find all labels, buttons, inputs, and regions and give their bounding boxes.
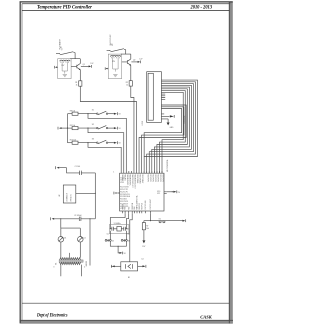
- svg-text:S3: S3: [92, 139, 94, 141]
- svg-text:3: 3: [53, 266, 54, 268]
- svg-text:12V: 12V: [112, 61, 116, 63]
- svg-text:RB7/PGD: RB7/PGD: [141, 202, 143, 210]
- svg-text:RC7/RX/DT: RC7/RX/DT: [120, 203, 128, 205]
- svg-text:1k: 1k: [126, 85, 128, 87]
- svg-text:1: 1: [113, 171, 114, 173]
- svg-text:5V: 5V: [112, 43, 114, 46]
- svg-text:C6: C6: [127, 234, 129, 236]
- svg-text:12V: 12V: [139, 59, 143, 61]
- svg-text:RC3/SCK/SCL: RC3/SCK/SCL: [120, 194, 130, 196]
- svg-text:RC2/CCP1: RC2/CCP1: [120, 191, 128, 193]
- svg-text:B1: B1: [128, 277, 130, 279]
- svg-text:C5: C5: [107, 234, 109, 236]
- svg-text:RD5/PSP5: RD5/PSP5: [159, 174, 161, 181]
- svg-text:5V: 5V: [178, 192, 181, 194]
- svg-text:240/12: 240/12: [86, 261, 88, 266]
- svg-text:RA5/AN4/SS/C2OUT: RA5/AN4/SS/C2OUT: [134, 174, 137, 188]
- svg-text:K1: K1: [159, 218, 161, 220]
- svg-text:RC6/TX/CK: RC6/TX/CK: [120, 201, 128, 203]
- svg-text:MCLR/VPP: MCLR/VPP: [120, 206, 128, 208]
- svg-text:R5: R5: [127, 228, 129, 230]
- svg-text:Q1: Q1: [83, 64, 85, 66]
- svg-text:5V: 5V: [119, 128, 122, 130]
- svg-text:S1: S1: [92, 110, 94, 112]
- svg-text:S7: S7: [110, 44, 112, 46]
- svg-text:RD1/PSP1: RD1/PSP1: [149, 174, 151, 181]
- svg-text:Q2: Q2: [133, 59, 135, 61]
- svg-text:2010 - 2013: 2010 - 2013: [190, 5, 213, 10]
- svg-text:R10 10k: R10 10k: [70, 139, 76, 141]
- svg-text:R8 10k: R8 10k: [70, 110, 76, 112]
- svg-text:CASK: CASK: [200, 314, 212, 319]
- svg-text:U2: U2: [59, 195, 61, 197]
- svg-text:T1: T1: [55, 263, 57, 265]
- svg-text:RD4/PSP4: RD4/PSP4: [157, 174, 159, 181]
- svg-text:RB6/PGC: RB6/PGC: [139, 202, 141, 210]
- svg-text:C4: C4: [141, 259, 143, 261]
- svg-text:OSC1/CLKIN: OSC1/CLKIN: [145, 201, 147, 210]
- svg-text:RE1/WR/AN6: RE1/WR/AN6: [139, 174, 142, 183]
- svg-text:5V: 5V: [119, 114, 122, 116]
- svg-text:PIC16F877A: PIC16F877A: [136, 195, 139, 208]
- svg-text:VSS: VSS: [120, 208, 123, 210]
- svg-text:R9 10k: R9 10k: [70, 125, 76, 127]
- svg-text:RA4/T0CKI/C1OUT: RA4/T0CKI/C1OUT: [131, 174, 134, 187]
- svg-text:RB3/PGM: RB3/PGM: [132, 202, 134, 210]
- svg-text:RC5/SDO: RC5/SDO: [120, 199, 128, 201]
- svg-text:12V: 12V: [142, 246, 146, 248]
- svg-text:RC1/CCP2: RC1/CCP2: [120, 189, 128, 191]
- svg-text:RC0: RC0: [157, 191, 160, 193]
- svg-text:5V: 5V: [124, 253, 127, 255]
- svg-text:12V: 12V: [61, 65, 65, 67]
- svg-text:5V: 5V: [62, 47, 64, 50]
- svg-text:C1 104: C1 104: [75, 166, 81, 168]
- svg-text:RD2/PSP2: RD2/PSP2: [151, 174, 153, 181]
- svg-text:RC1: RC1: [157, 193, 160, 195]
- svg-text:U1 PIC16F877A: U1 PIC16F877A: [166, 159, 169, 172]
- svg-text:D1: D1: [64, 238, 66, 240]
- svg-text:D2: D2: [84, 238, 86, 240]
- svg-text:VREG 5V: VREG 5V: [70, 193, 72, 201]
- svg-text:1k: 1k: [76, 85, 78, 87]
- svg-text:C2 470uF: C2 470uF: [74, 215, 81, 217]
- svg-text:RA3/AN3/VREF+: RA3/AN3/VREF+: [128, 174, 131, 186]
- svg-text:GND: GND: [170, 127, 175, 129]
- svg-text:RC0/T1OSO: RC0/T1OSO: [120, 187, 129, 189]
- svg-text:S4: S4: [112, 240, 114, 242]
- svg-text:RA2/AN2/VREF-: RA2/AN2/VREF-: [126, 174, 129, 186]
- svg-text:12V: 12V: [90, 63, 94, 65]
- svg-text:RD0/PSP0: RD0/PSP0: [146, 174, 148, 181]
- svg-text:10k: 10k: [146, 228, 149, 230]
- svg-text:X1 4MHz: X1 4MHz: [114, 223, 121, 225]
- svg-text:RD3/PSP3: RD3/PSP3: [154, 174, 156, 181]
- svg-text:LM7805CT: LM7805CT: [66, 193, 68, 201]
- svg-text:RD6/PSP6: RD6/PSP6: [162, 174, 164, 181]
- svg-text:S2: S2: [92, 124, 94, 126]
- svg-text:Dept of Electronics: Dept of Electronics: [36, 314, 67, 319]
- svg-text:LCD1: LCD1: [142, 121, 144, 125]
- svg-text:S6: S6: [60, 47, 62, 49]
- svg-text:RE2/CS/AN7: RE2/CS/AN7: [141, 174, 144, 183]
- svg-text:Temperature PID Controller: Temperature PID Controller: [37, 4, 93, 10]
- svg-text:RB2: RB2: [128, 207, 130, 210]
- svg-text:OSC2/CLKOUT: OSC2/CLKOUT: [150, 199, 152, 210]
- svg-text:5V: 5V: [119, 143, 122, 145]
- svg-text:VSS1: VSS1: [120, 182, 124, 184]
